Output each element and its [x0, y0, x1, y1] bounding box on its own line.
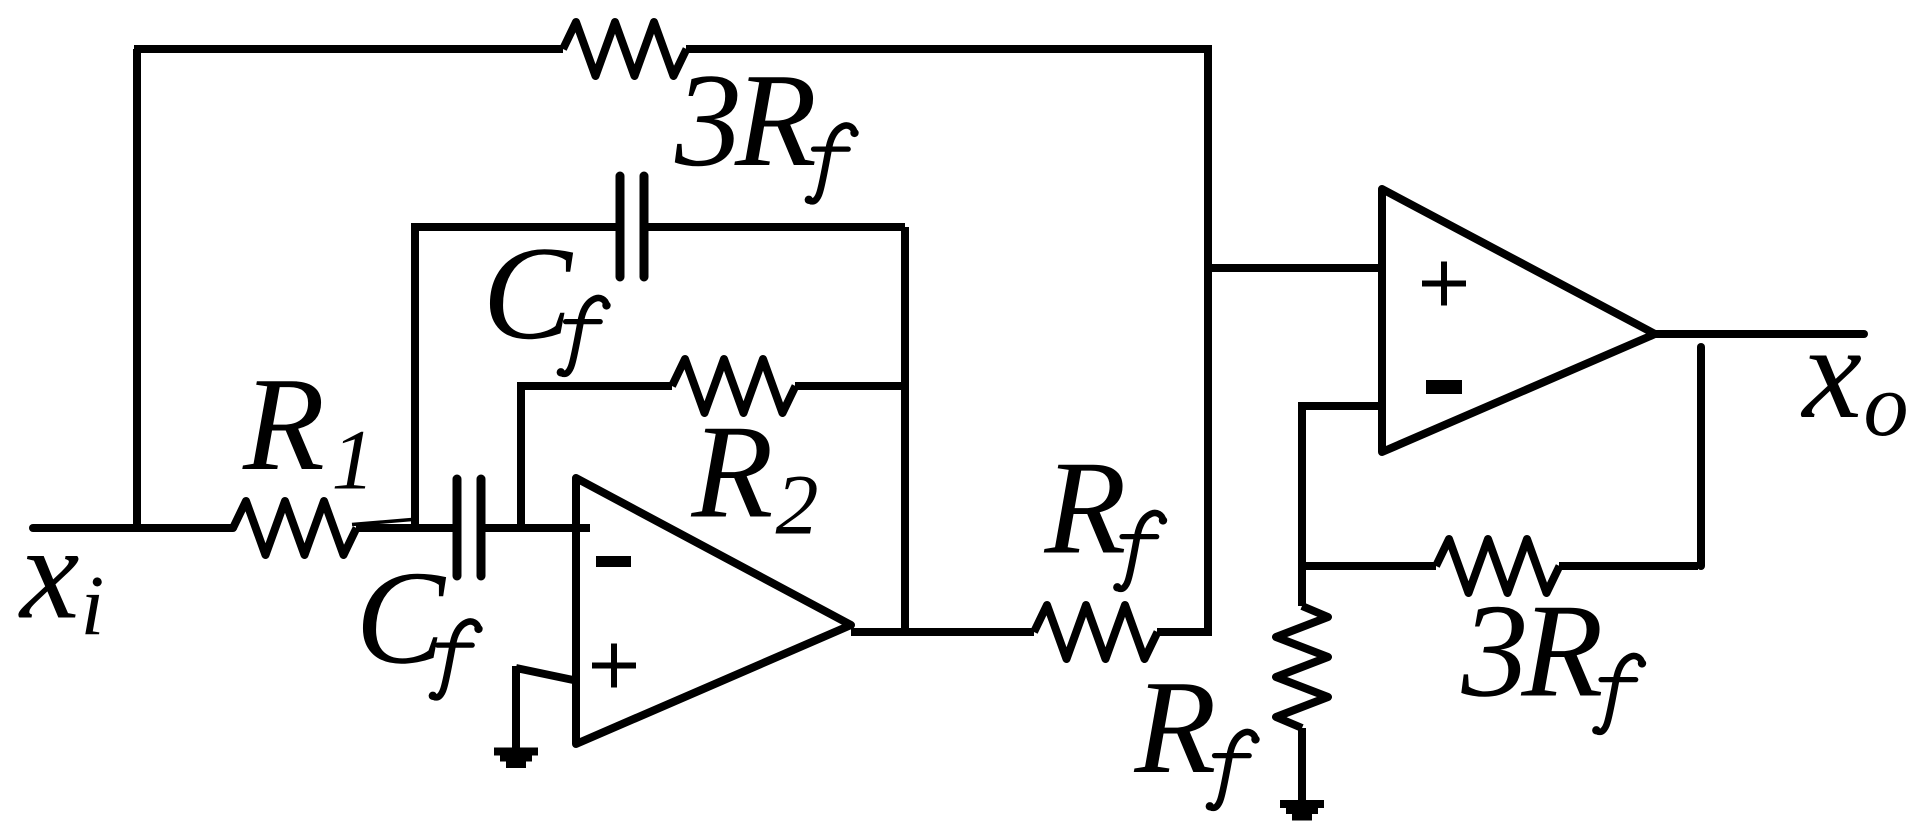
wire feedback vertical from output	[1697, 347, 1705, 566]
ground (U2 network)	[1280, 800, 1324, 821]
wire R2 to right mid vertical	[795, 382, 905, 390]
wire R2 loop left vertical	[517, 386, 525, 528]
wire Cf loop left vertical	[411, 227, 419, 528]
svg-text:C: C	[356, 544, 447, 692]
capacitor Cf lower (series)	[457, 479, 481, 576]
wire Rf vertical to ground	[1298, 728, 1306, 800]
wire U2 output to x_o	[1655, 330, 1864, 338]
op-amp U2	[1382, 189, 1655, 452]
op-amp U1	[576, 478, 851, 744]
wire inverting node down to Rf vertical	[1298, 566, 1306, 606]
op-amp U2 minus sign	[1426, 380, 1462, 394]
wire left vertical from input node up	[133, 49, 141, 528]
svg-text:C: C	[483, 219, 574, 367]
wire R1 to capacitor Cf lower	[356, 524, 453, 532]
svg-text:R: R	[242, 350, 325, 498]
svg-text:2: 2	[776, 457, 819, 553]
svg-text:R: R	[1134, 653, 1217, 801]
resistor 3Rf bottom (feedback)	[1436, 539, 1560, 593]
wire inverting node to 3Rf	[1302, 562, 1436, 570]
resistor Rf vertical (to ground)	[1276, 606, 1328, 728]
svg-text:x: x	[18, 499, 79, 647]
svg-text:i: i	[81, 558, 105, 654]
resistor R1	[233, 501, 357, 555]
wire capacitor Cf lower to op-amp U1 inverting input	[485, 524, 590, 532]
capacitor Cf top (feedback)	[620, 176, 644, 277]
svg-text:x: x	[1801, 298, 1862, 446]
wire Rf to right vertical	[1157, 628, 1212, 636]
op-amp U1 plus sign	[592, 644, 636, 688]
wire Cf loop top left segment	[411, 223, 616, 231]
resistor Rf (U1 output)	[1034, 605, 1158, 659]
op-amp U1 minus sign	[596, 556, 631, 567]
svg-text:3R: 3R	[674, 46, 815, 194]
wire right mid vertical (Cf/R2 junction to U1 output)	[901, 227, 909, 632]
wire top horizontal left segment	[134, 45, 563, 53]
wire input from x_i to node A	[33, 524, 233, 532]
wire to op-amp U2 non-inverting input	[1208, 264, 1382, 272]
ground (U1)	[494, 748, 538, 769]
svg-text:1: 1	[332, 412, 375, 508]
wire U2 inverting input step	[1302, 402, 1382, 566]
wire U1 non-inverting input to ground	[516, 666, 578, 750]
wire R2 loop top left segment	[517, 382, 672, 390]
svg-text:3R: 3R	[1461, 577, 1602, 725]
wire 3Rf to feedback vertical	[1559, 562, 1698, 570]
wire top horizontal right segment	[686, 45, 1208, 53]
svg-text:o: o	[1864, 356, 1909, 455]
wire Cf loop top right segment	[648, 223, 905, 231]
resistor 3Rf top	[563, 22, 687, 76]
op-amp U2 plus sign	[1422, 262, 1466, 306]
resistor R2	[672, 359, 796, 413]
svg-text:R: R	[691, 398, 774, 546]
wire jog artifact at node A	[352, 520, 412, 525]
wire U1 output to Rf	[851, 628, 1034, 636]
wire right vertical down to Rf node	[1204, 45, 1212, 632]
svg-text:R: R	[1044, 434, 1127, 582]
